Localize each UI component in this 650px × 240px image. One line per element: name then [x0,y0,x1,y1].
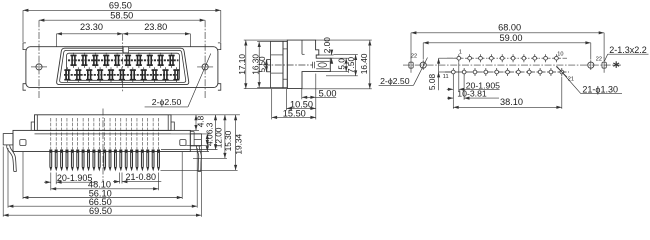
top view row centerlines [447,57,567,59]
dimension 4.8 bottom view [171,114,240,116]
dimension 17.10 side [245,40,247,89]
svg-text:5.08: 5.08 [427,74,437,91]
svg-text:5.00: 5.00 [319,88,337,98]
svg-text:15.30: 15.30 [223,130,233,151]
top view asterisk mark [615,61,617,68]
side view centerline [263,64,313,66]
svg-text:23.30: 23.30 [80,22,103,32]
bottom view long centerline [102,109,104,182]
bottom view flange bar [13,130,190,151]
bottom view left tab [3,134,13,145]
side view contact pin [312,62,314,69]
dimension 10-3.81 top [452,91,454,100]
dimension 20-1.905 top [452,76,454,91]
svg-text:15.50: 15.50 [283,109,306,119]
dimension 5.50 side [265,60,267,72]
side view metal flange strip [271,41,283,87]
dimension 69.50 bottom view [2,147,4,217]
front view left bracket tabs [23,43,26,50]
dimension 10.50 side bottom [287,107,316,109]
dimension 16.40 side [369,40,371,89]
dimension 23.80 front [123,33,191,35]
svg-text:2-1.3x2.2: 2-1.3x2.2 [609,45,647,55]
svg-text:11: 11 [443,74,449,80]
bottom view right slot pad [180,140,186,146]
dimension 38.10 top [453,106,562,108]
dimension 12.00 bottom view [161,149,218,151]
front view top key notch [123,47,128,53]
bottom view left slot pad [20,140,26,146]
front view contact row lines [68,59,179,61]
front view top contact row pins 1-10 [70,53,76,68]
bottom view right tab [190,134,201,146]
svg-text:68.00: 68.00 [498,23,521,33]
svg-text:23.80: 23.80 [144,22,167,32]
svg-text:38.10: 38.10 [500,97,523,107]
dimension 66.50 bottom view [7,148,9,208]
svg-text:58.50: 58.50 [110,11,133,21]
bottom view left board lock leg [7,145,14,172]
top view right mounting hole [588,62,594,68]
top view main centerline [403,64,621,66]
top view pins 1-10 [456,54,462,62]
bottom view shroud block [35,115,172,131]
dimension 15.30 bottom view [193,157,227,159]
bottom view right board lock leg [197,146,199,172]
front view vertical centerline [122,34,124,92]
dimension 7.50 side [355,55,357,76]
svg-text:21-0.80: 21-0.80 [126,172,157,182]
svg-text:21-ϕ1.30: 21-ϕ1.30 [582,85,618,95]
dimension 5.0 side [345,58,347,71]
dimension 2.00 side [331,50,333,55]
dimension 23.30 front [57,33,123,35]
dimension 21-0.80 bottom view [119,173,121,184]
svg-text:59.00: 59.00 [500,33,523,43]
dimension 16.30 side [258,42,260,88]
front view shroud inner wall [60,50,186,82]
dimension 20-1.905 bottom view [50,173,52,185]
top view left mounting hole [420,62,426,68]
dimension 6.3 / 4.0 bottom view [171,133,209,135]
front view bottom contact row pins 11-21 [64,67,70,82]
dimension 5.08 top [438,58,440,72]
front view shroud outer trapezoid [57,48,189,84]
dimension 69.50 front [23,9,221,11]
svg-text:5.50: 5.50 [257,56,267,73]
dimension 59.00 top [423,42,591,44]
front view insert face [67,53,180,80]
front view right bracket tabs [218,43,221,50]
side view board lock boss [267,60,271,72]
front view left mounting hole [36,64,42,70]
bottom view end steps [31,122,34,130]
front view connector body shell [26,47,218,88]
top view left slot pad 22 [409,62,413,68]
dimension 68.00 top [411,32,604,34]
dimension 5.00 side bottom [302,96,316,98]
dimension 19.34 bottom view [161,169,238,171]
dimension 48.10 bottom view [50,184,52,190]
svg-text:22: 22 [596,56,602,62]
svg-text:1: 1 [459,49,462,55]
dimension 15.50 side bottom [272,116,316,118]
dimension 56.10 bottom view [22,152,24,199]
front view right mounting hole [202,64,208,70]
svg-text:69.50: 69.50 [109,0,132,10]
top view pins 11-21 [450,68,456,76]
svg-text:2.00: 2.00 [322,37,332,54]
top view right slot pad 22 [602,62,606,68]
svg-text:2-ϕ2.50: 2-ϕ2.50 [380,76,410,86]
bottom view needle pins x21 with centerlines [50,118,52,149]
svg-text:69.50: 69.50 [89,206,112,216]
svg-text:10-3.81: 10-3.81 [457,88,487,98]
svg-text:22: 22 [411,54,417,60]
dimension 58.50 front [39,19,205,21]
svg-text:17.10: 17.10 [237,54,247,75]
svg-text:19.34: 19.34 [234,133,244,154]
side view snout inner walls [316,60,329,62]
svg-text:7.50: 7.50 [346,57,356,74]
svg-text:2-ϕ2.50: 2-ϕ2.50 [152,97,182,107]
svg-text:10: 10 [557,52,563,58]
svg-text:16.40: 16.40 [359,53,369,74]
side view plastic body outline [287,40,330,89]
